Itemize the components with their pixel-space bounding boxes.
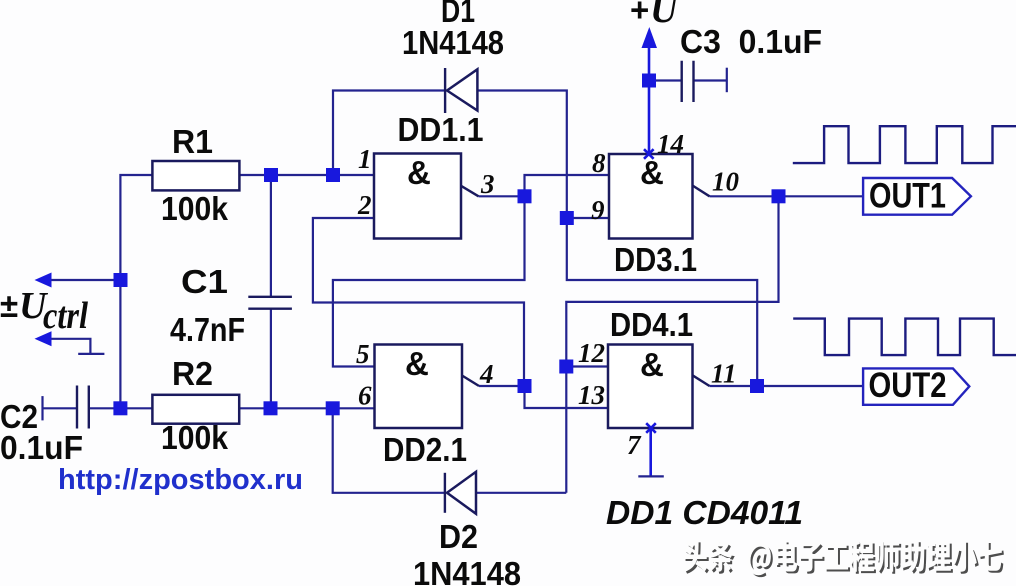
wire C1 top (270, 175, 272, 297)
junction R1-C1 (264, 168, 278, 182)
svg-text:&: & (407, 154, 431, 191)
wire D2 anode to right corner (476, 492, 566, 494)
waveform OUT1 (793, 126, 1016, 163)
junction R1-D1-pin1 (326, 168, 340, 182)
svg-text:2: 2 (357, 190, 372, 220)
resistor R2 (152, 395, 239, 424)
junction pin 12 (559, 360, 573, 374)
svg-text:10: 10 (712, 167, 740, 197)
OUT2 flag (863, 368, 969, 404)
svg-text:6: 6 (358, 381, 372, 411)
svg-text:3: 3 (480, 169, 495, 199)
arrow Uctrl lower (35, 331, 52, 346)
wire R1 output to pin 1 (239, 174, 374, 176)
wire pin 2 to output 4 net (313, 218, 524, 386)
svg-text:DD4.1: DD4.1 (610, 306, 693, 343)
junction OUT1 (772, 189, 786, 203)
wire Uctrl lower arrow with terminal (51, 339, 104, 354)
junction output 4 (518, 379, 532, 393)
wire left rail from R1 to R2 (120, 175, 152, 408)
junction C1 bottom (264, 401, 278, 415)
svg-text:7: 7 (627, 430, 642, 460)
wire D2 right side up through pin 12 to OUT1 net (566, 196, 778, 493)
wire output 11 to OUT2 flag (710, 385, 864, 387)
wire Uctrl upper arrow (51, 279, 120, 281)
svg-text:&: & (640, 154, 664, 191)
svg-text:5: 5 (356, 339, 370, 369)
svg-text:0.1uF: 0.1uF (0, 429, 83, 466)
wire junction 3 up to pin 8 (525, 175, 610, 196)
svg-text:U: U (650, 0, 680, 31)
OUT1 flag (863, 178, 971, 215)
wire output 3 to junction (479, 195, 525, 197)
svg-text:+: + (630, 0, 649, 28)
pin 7 vertical with terminal (649, 428, 652, 476)
pin 7 cross mark (646, 423, 656, 433)
svg-text:&: & (405, 345, 429, 382)
svg-text:http://zpostbox.ru: http://zpostbox.ru (58, 464, 303, 496)
wire pin 12 stub (566, 365, 608, 367)
waveform OUT2 (793, 319, 1016, 356)
wire output 10 to OUT1 flag (710, 195, 864, 197)
svg-text:12: 12 (578, 338, 605, 368)
wire node B down to D2 (333, 408, 445, 493)
junction OUT2 (750, 379, 764, 393)
pin 7 terminal bar (638, 475, 664, 477)
junction output 3 (518, 189, 532, 203)
svg-text:11: 11 (711, 359, 737, 389)
svg-text:1N4148: 1N4148 (413, 555, 521, 586)
svg-text:D2: D2 (439, 518, 478, 555)
capacitor C2 open terminal (41, 396, 43, 420)
svg-text:DD1 CD4011: DD1 CD4011 (606, 494, 803, 531)
junction C2-R2 rail (113, 401, 127, 415)
svg-text:R2: R2 (172, 355, 213, 392)
capacitor C1 plates (248, 297, 292, 309)
junction +U C3 (642, 74, 656, 88)
junction R2-pin6-D2 (326, 401, 340, 415)
svg-text:OUT2: OUT2 (869, 366, 947, 405)
wire pin 9 stub (567, 217, 609, 219)
svg-text:DD2.1: DD2.1 (383, 431, 467, 468)
arrow +U (642, 27, 658, 48)
wire R2 left (120, 407, 152, 409)
wire C1 bottom (270, 309, 272, 409)
svg-text:OUT1: OUT1 (869, 177, 946, 216)
resistor R1 (152, 161, 239, 190)
svg-text:C3 0.1uF: C3 0.1uF (680, 23, 822, 60)
diode D2 (445, 472, 476, 514)
wire junction 3 down cross-couple to pin 5 (333, 196, 525, 366)
capacitor C2 plates (77, 386, 89, 429)
svg-text:8: 8 (592, 148, 606, 178)
wire D1 right side to pin 9 and OUT2 net (477, 91, 757, 387)
arrow Uctrl upper (35, 273, 52, 288)
svg-text:R1: R1 (172, 123, 213, 160)
diode D1 (445, 68, 477, 113)
op-amp gate DD2.1 (375, 345, 480, 429)
capacitor C3 plates (682, 61, 694, 102)
svg-text:1: 1 (358, 144, 372, 174)
wire C3 horizontal (649, 79, 727, 81)
svg-text:14: 14 (657, 129, 684, 159)
wire D1 anode branch vertical to node A (333, 91, 445, 176)
wire C2 to R2 (43, 407, 121, 409)
svg-text:9: 9 (591, 195, 605, 225)
wire junction 4 down to pin 13 (525, 386, 609, 408)
svg-text:4.7nF: 4.7nF (170, 311, 245, 348)
svg-text:13: 13 (578, 380, 605, 410)
wire +U supply vertical to pin 14 (648, 46, 651, 154)
pin 14 cross mark (644, 149, 654, 159)
wire R2 output to pin 6 (239, 407, 374, 409)
svg-text:C1: C1 (181, 263, 228, 300)
capacitor C3 open terminal (726, 68, 728, 93)
svg-text:DD3.1: DD3.1 (614, 241, 697, 278)
svg-text:100k: 100k (161, 190, 229, 227)
CJK watermark 头条@电子工程师助理小七 (683, 540, 1004, 577)
svg-text:100k: 100k (161, 419, 229, 456)
svg-text:1N4148: 1N4148 (402, 24, 504, 61)
wire output 4 to junction (479, 385, 525, 387)
svg-text:4: 4 (479, 359, 494, 389)
junction pin 9 (560, 211, 574, 225)
svg-text:DD1.1: DD1.1 (398, 111, 484, 148)
svg-text:ctrl: ctrl (43, 295, 88, 337)
op-amp gate DD1.1 (374, 154, 479, 239)
op-amp gate DD4.1 (608, 345, 710, 429)
op-amp gate DD3.1 (609, 154, 710, 239)
svg-text:&: & (640, 346, 664, 383)
svg-text:±: ± (0, 287, 18, 324)
junction Uctrl rail (114, 273, 128, 287)
